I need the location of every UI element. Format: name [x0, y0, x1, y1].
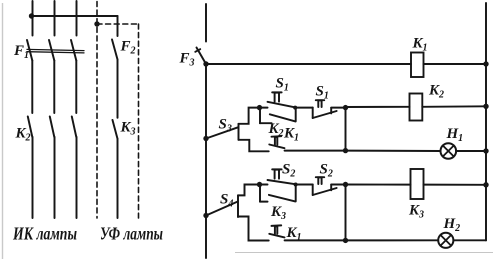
- UV line bottom segment: [117, 139, 119, 218]
- node branch A2 left: [257, 182, 262, 187]
- contact K2 blade: [270, 114, 296, 121]
- button S1 break contact: left hook: [312, 108, 314, 118]
- contact K3 terminal: [260, 201, 268, 203]
- contact K2 pole3 blade: [72, 117, 77, 138]
- wire rung2 to coil: [346, 106, 410, 108]
- pole 2 bottom segment: [54, 137, 56, 218]
- contact K3 holding: left riser: [259, 185, 261, 202]
- switch S3 blade: [206, 127, 238, 138]
- dashed boundary line 2: [138, 24, 140, 218]
- pole 3 middle segment: [75, 61, 77, 114]
- wire S4 fixed vertical: [237, 195, 239, 217]
- button S2 break tick: [330, 185, 332, 191]
- wire branch A right: [331, 107, 345, 109]
- left rail top segment: [205, 4, 207, 42]
- scan artifact bottom line: [235, 252, 493, 254]
- node rail-rung1 right: [483, 61, 488, 66]
- button S1 break blade: [313, 111, 337, 118]
- switch F3 blade: [197, 48, 207, 65]
- node vertical top block: [345, 108, 347, 151]
- contact K2 holding: left riser: [259, 108, 261, 124]
- pole 1 middle segment: [31, 61, 33, 114]
- scan artifact left edge: [2, 3, 4, 259]
- button S1 break actuator: [318, 100, 321, 107]
- wire lamp H1 right: [456, 150, 486, 152]
- breaker F1 pole1 blade: [27, 40, 32, 61]
- button S1 make blade: [268, 102, 296, 108]
- contact K3 blade: [113, 120, 118, 139]
- switch F3 tick: [195, 49, 200, 52]
- dashed boundary line 1: [96, 2, 98, 219]
- node branch A / rung2: [343, 105, 348, 110]
- node S4 tap: [203, 213, 208, 218]
- contact K2 pole1 blade: [28, 117, 33, 138]
- wire between S1 contacts: [295, 107, 312, 109]
- button S2 break blade: [313, 188, 337, 195]
- node K3 riser top: [294, 183, 298, 187]
- wire rung1 left: [206, 63, 411, 65]
- relay coil K2: [410, 94, 423, 121]
- wire branch B2 right: [285, 239, 346, 241]
- button S1 make contact: terminal: [260, 107, 268, 109]
- contact K1 aux blade: [269, 145, 284, 149]
- pole 1 bottom segment: [32, 137, 34, 218]
- node branch B / lamp H1: [343, 148, 348, 153]
- wire lamp H1 left: [346, 150, 441, 152]
- contact K1 aux2 actuator: [275, 226, 277, 233]
- pole 1 top segment: [32, 1, 34, 36]
- svg-text:УФ лампы: УФ лампы: [100, 224, 163, 244]
- button S2 make contact: terminal: [260, 184, 268, 186]
- node rail-rung1: [203, 61, 208, 66]
- wire S3 fixed vertical: [238, 124, 240, 140]
- UV line middle segment: [117, 60, 119, 118]
- wire to lower branch B2: [238, 217, 269, 241]
- pole 2 middle segment: [53, 61, 55, 114]
- fuse-switch F2 blade: [112, 40, 118, 60]
- contact K2 terminal: [260, 122, 272, 124]
- wire between S2 contacts: [295, 184, 313, 186]
- node S3 tap: [203, 136, 208, 141]
- button S2 make blade: [268, 180, 296, 184]
- button S1 actuator: [275, 93, 279, 102]
- contact K3 blade: [269, 195, 295, 202]
- switch S4 blade: [206, 202, 238, 216]
- contact K3 right riser: [295, 185, 297, 202]
- node bus-pole1: [29, 13, 34, 18]
- breaker F1 linkage bar (double line): [27, 49, 84, 50]
- lamp H2: [438, 233, 453, 248]
- node branch A left: [257, 105, 262, 110]
- node K2 riser top: [293, 106, 297, 110]
- wire rung4 right: [424, 184, 487, 186]
- svg-text:ИК лампы: ИК лампы: [12, 224, 77, 244]
- contact K1 aux2 blade: [269, 234, 284, 238]
- contact K2 pole2 blade: [50, 117, 55, 138]
- button S1 break tick: [330, 108, 332, 114]
- node rail-H1: [483, 148, 488, 153]
- relay coil K1: [411, 53, 424, 78]
- dashed bus 2: [97, 23, 139, 25]
- left rail main: [205, 64, 207, 258]
- button S2 actuator: [275, 170, 279, 179]
- node rail-rung2: [483, 104, 488, 109]
- wire lamp H2 left: [346, 239, 439, 241]
- wire to upper branch: [239, 108, 260, 124]
- wire rung2 right: [422, 105, 486, 108]
- node branch A2 / rung4: [343, 182, 348, 187]
- button S2 break actuator: [318, 177, 321, 184]
- wire rung4 to coil: [346, 184, 411, 186]
- button S2 break contact: left hook: [312, 185, 314, 196]
- wire lamp H2 right: [453, 239, 486, 241]
- contact K1 aux actuator: [275, 137, 277, 144]
- node vertical bottom block: [345, 185, 347, 241]
- wire bus to UV line corner: [117, 16, 119, 36]
- contact K2 right riser: [295, 108, 297, 122]
- wire rung1 right: [424, 63, 487, 65]
- wire to lower branch B: [239, 140, 269, 152]
- bus L1 top: [31, 15, 118, 17]
- wire to upper branch A2: [238, 185, 260, 196]
- pole 3 bottom segment: [76, 137, 78, 218]
- pole 3 top segment: [76, 1, 78, 36]
- wire branch B right: [285, 150, 346, 152]
- wire branch A2 right: [331, 184, 345, 186]
- breaker F1 pole3 blade: [71, 40, 76, 61]
- relay coil K3: [411, 169, 424, 199]
- node bus2 start: [94, 21, 99, 26]
- node branch B2 / lamp H2: [343, 238, 348, 243]
- breaker F1 pole2 blade: [49, 40, 54, 61]
- pole 2 top segment: [54, 1, 56, 36]
- node rail-rung4: [483, 182, 488, 187]
- lamp H1: [441, 143, 457, 159]
- right rail: [485, 3, 487, 240]
